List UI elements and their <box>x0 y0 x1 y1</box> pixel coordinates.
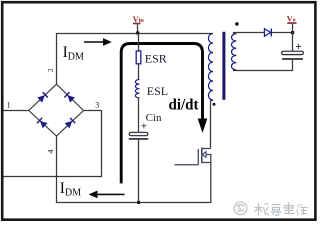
wire: primary bottom to MOSFET drain <box>210 100 212 149</box>
resistor ESR <box>138 34 140 52</box>
wire: output loop bottom <box>234 60 293 71</box>
transformer core <box>222 32 225 100</box>
arrow (bottom, pointing left) <box>97 193 125 195</box>
svg-text:4: 4 <box>46 150 55 154</box>
transistor Q1 (MOSFET) <box>175 148 211 165</box>
inductor ESL <box>138 64 140 80</box>
diode D3 (bridge bottom-left, points to left corner) <box>37 118 48 129</box>
arrow (top, pointing right) <box>84 41 104 43</box>
svg-text:1: 1 <box>7 100 11 109</box>
node junction Cin/bottom rail <box>137 201 140 204</box>
watermark logo <box>234 202 247 215</box>
diode D1 (bridge top-left, points to top corner) <box>37 92 48 103</box>
capacitor Co (output) <box>292 33 294 52</box>
svg-text:Vin: Vin <box>133 15 145 24</box>
svg-text:ESR: ESR <box>145 52 167 66</box>
bridge rectifier diamond wires <box>29 84 84 136</box>
svg-text:di/dt: di/dt <box>169 96 200 113</box>
wire: diode to Vo node <box>272 32 293 34</box>
wire: di/dt current loop (thick) <box>121 44 207 184</box>
capacitor Cin <box>138 98 140 132</box>
diode D4 (bridge bottom-right, points to right corner) <box>65 118 76 129</box>
svg-text:ESL: ESL <box>147 84 168 98</box>
wire: bridge left corner to left edge <box>4 110 29 112</box>
node junction at Vin tap <box>136 31 139 34</box>
wire: top rail from bridge stub corner to transformer primary <box>57 34 213 85</box>
diode D5 (output rectifier) <box>264 29 270 37</box>
svg-text:3: 3 <box>95 100 99 109</box>
diode D2 (bridge top-right, points to top corner) <box>64 92 75 103</box>
secondary phasing dot <box>235 22 239 26</box>
wire: secondary top to output diode <box>234 33 265 34</box>
terminal Vin <box>133 15 145 34</box>
transformer secondary winding <box>232 34 237 71</box>
node junction Vo <box>291 31 294 34</box>
primary phasing dot <box>213 103 216 106</box>
svg-text:2: 2 <box>47 68 55 72</box>
svg-text:Cin: Cin <box>146 112 162 124</box>
transformer primary winding <box>208 34 213 101</box>
wire: bridge bottom to bottom rail to MOSFET source <box>57 136 211 203</box>
terminal Vo <box>287 15 297 33</box>
watermark text 松哥电源 <box>255 203 308 216</box>
wire: bridge right corner to right vert, down, and lower horizontal to left edge <box>4 111 102 177</box>
